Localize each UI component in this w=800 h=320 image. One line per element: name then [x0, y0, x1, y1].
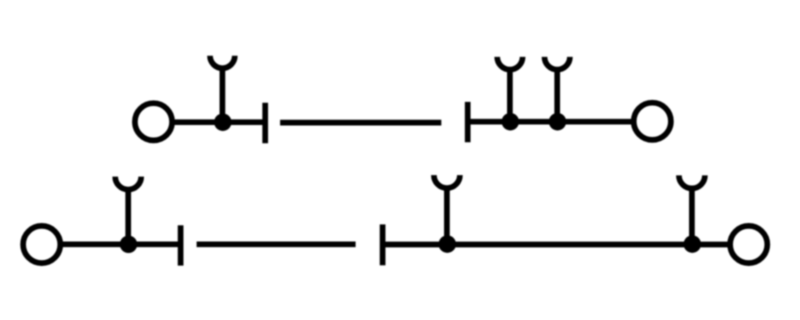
test tap T4 stem (row 2 left) [125, 188, 131, 245]
disconnect bar row2 right [380, 224, 386, 265]
test tap T3 stem (row 1) [554, 68, 560, 122]
test tap T6 fork arc [679, 175, 705, 188]
terminal circle X2 (row 1 right) [634, 103, 671, 140]
junction dot row1 right [549, 113, 567, 131]
junction dot row1 mid [502, 113, 520, 131]
test tap T5 stem (row 2) [444, 186, 450, 245]
junction dot row2 left [120, 236, 138, 254]
test tap T5 fork arc [434, 175, 460, 188]
disconnect bar row1 right [465, 102, 471, 142]
wire row2: circle X3 to disconnect bar [60, 241, 180, 247]
junction dot row2 mid [439, 235, 457, 253]
wire row2: bar to circle X4 [383, 242, 730, 248]
disconnect bar row1 left [262, 103, 268, 143]
terminal circle X1 (row 1 left) [135, 103, 172, 140]
terminal circle X3 (row 2 left) [23, 226, 60, 263]
terminal circle X4 (row 2 right) [730, 226, 767, 263]
wire row1: bar to circle X2 [468, 119, 634, 125]
junction dot row2 right [684, 235, 702, 253]
test tap T2 stem (row 1) [507, 68, 513, 122]
test tap T2 fork arc [497, 57, 522, 70]
test tap T4 fork arc [115, 177, 141, 190]
wire row1: circle X1 to disconnect bar [172, 119, 265, 125]
junction dot row1 left [214, 113, 232, 131]
test tap T1 fork arc [210, 56, 235, 68]
wire row1 middle segment [280, 120, 441, 126]
test tap T1 stem (row 1 left) [220, 67, 226, 123]
test tap T3 fork arc [545, 57, 570, 70]
test tap T6 stem (row 2) [689, 186, 695, 244]
disconnect bar row2 left [178, 225, 184, 265]
wire row2 middle segment [197, 241, 356, 247]
